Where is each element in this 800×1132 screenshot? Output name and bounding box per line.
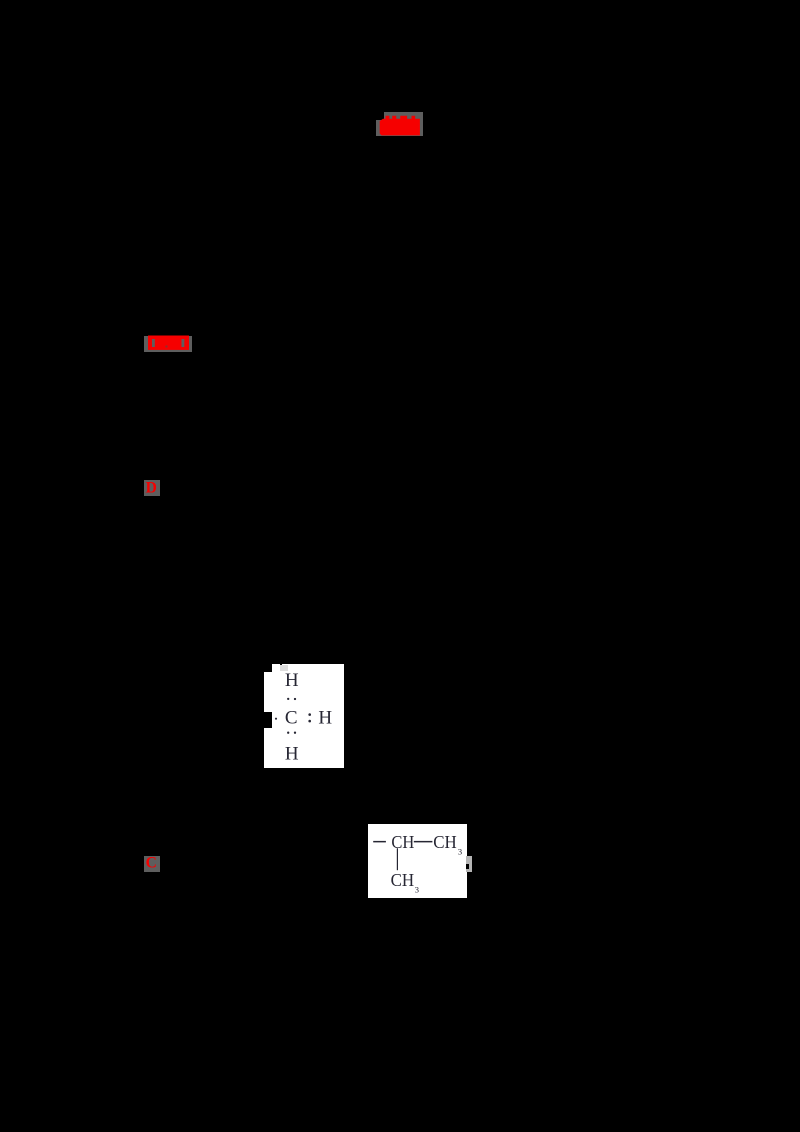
svg-text:3: 3: [458, 847, 462, 857]
svg-text:C: C: [146, 855, 157, 871]
bond dash 1: [373, 841, 386, 843]
vertical bond: [397, 848, 398, 870]
black comma mark on grey square: [466, 864, 469, 869]
white box 1 left strip: [264, 672, 273, 768]
single electron dot left of C: [275, 718, 277, 720]
lewis structure text: [255, 650, 360, 780]
highlight grey box around 【答案】: [144, 336, 192, 352]
svg-text:CH: CH: [391, 832, 414, 852]
svg-text:D: D: [146, 480, 157, 496]
white box 1 (CH4 electron dot structure) main: [272, 664, 344, 768]
svg-text:CH: CH: [391, 870, 415, 890]
red word blob (甲烷): [379, 115, 421, 136]
light grey square on white box 1: [280, 665, 288, 671]
highlight grey box answer C: [144, 856, 160, 872]
highlight grey box top (selection around red word): [384, 112, 423, 136]
black cut glyph blob at left edge of box 1: [264, 712, 272, 729]
red letter C: [144, 853, 162, 871]
bond dash 2: [414, 841, 433, 843]
colon between C and H: [308, 713, 311, 716]
svg-text:H: H: [285, 744, 299, 765]
svg-text:3: 3: [415, 885, 419, 895]
red letter D: [144, 478, 162, 496]
svg-text:CH: CH: [433, 832, 457, 852]
lower electron dot pair: [287, 732, 289, 734]
red 【答案】 blob: [147, 335, 190, 351]
grey square at right edge of box 2: [466, 856, 472, 872]
upper electron dot pair: [287, 698, 289, 700]
tiny black tick on box 1 top edge: [280, 664, 282, 666]
structural formula text: [365, 820, 475, 900]
highlight grey box answer D: [144, 480, 160, 496]
svg-text:H: H: [285, 670, 299, 691]
white box 2 (isopropyl structural formula): [368, 824, 467, 898]
svg-text:C: C: [285, 708, 298, 729]
svg-text:H: H: [318, 708, 332, 729]
highlight grey box top left notch: [376, 120, 384, 136]
